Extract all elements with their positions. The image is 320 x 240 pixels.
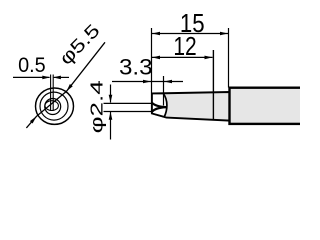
dim 0.5 line right (54, 76, 69, 78)
dim 12 arrow left (152, 56, 160, 60)
tip taper body (gray) (152, 92, 230, 121)
end view second circle (sleeve ID) (40, 92, 68, 120)
tip nose lens (white bevel face) (152, 94, 167, 117)
chisel wedge bottom edge (152, 107, 166, 112)
end view inner ellipse (chisel face) (45, 101, 58, 111)
end view middle circle (phi2.4) (45, 99, 61, 115)
svg-text:0.5: 0.5 (18, 55, 46, 78)
dim 0.5 arrow left (42, 76, 50, 80)
dim phi2.4 ext line top (104, 102, 152, 104)
svg-text:φ2.4: φ2.4 (86, 80, 106, 133)
label phi2.4 (86, 80, 106, 133)
dim 3.3 arrow right (164, 80, 172, 84)
dim 0.5 arrow right (53, 76, 61, 80)
ext line 3.3 right (x=163.5) (163, 76, 165, 106)
chisel edge line right (52, 75, 54, 111)
dim phi2.4 arrow line bottom (110, 112, 112, 140)
ext line tip end (x=151.5) (151, 28, 153, 114)
svg-text:3.3: 3.3 (119, 55, 153, 80)
svg-text:15: 15 (180, 10, 205, 39)
phi5.5 leader arrow upper (66, 84, 72, 91)
dim 12 line (152, 56, 213, 58)
phi5.5 leader line (26, 42, 105, 128)
dim 0.5 line left (13, 76, 50, 78)
ext line 12 right (x=213) (212, 50, 214, 120)
chisel edge line left (50, 75, 52, 111)
label phi5.5 (55, 20, 104, 69)
dim phi2.4 ext line bottom (104, 111, 152, 113)
dim 15 arrow left (152, 32, 160, 36)
dim 3.3 arrow left (143, 80, 151, 84)
dim 15 line (152, 33, 228, 35)
phi5.5 leader arrow lower (30, 116, 37, 123)
ext line 15 right (x=228.5) (228, 28, 230, 88)
svg-text:φ5.5: φ5.5 (55, 20, 104, 69)
dim 15 arrow right (220, 32, 228, 36)
barrel cylinder (230, 88, 302, 124)
dim phi2.4 arrow line top (110, 85, 112, 103)
end view outer circle (sleeve OD, phi5.5) (36, 88, 74, 124)
dim 12 arrow right (205, 56, 213, 60)
dim 3.3 line (112, 81, 183, 83)
chisel wedge top edge (152, 103, 166, 108)
